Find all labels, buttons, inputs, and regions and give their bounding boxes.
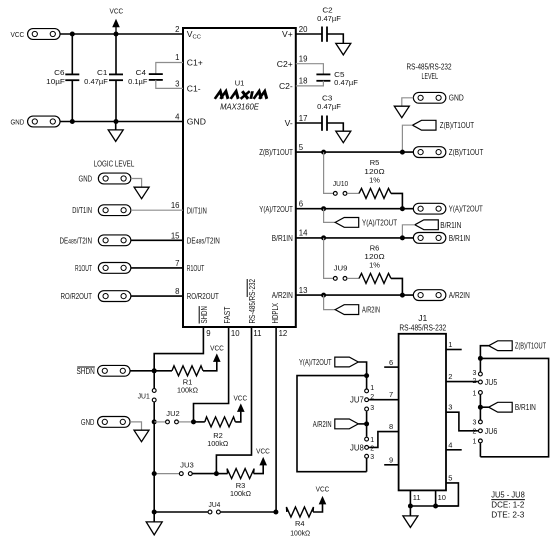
svg-text:Z(B)/T1OUT: Z(B)/T1OUT	[449, 147, 484, 157]
junction dot pin13/R6	[400, 293, 405, 298]
svg-text:6: 6	[299, 200, 303, 209]
wire left rail (JU1 to ground)	[153, 402, 155, 522]
svg-text:9: 9	[206, 329, 210, 338]
svg-text:1: 1	[370, 385, 374, 392]
jumper JU2	[154, 421, 165, 423]
svg-text:Y(A)/T2OUT: Y(A)/T2OUT	[362, 217, 398, 227]
power VCC arrow (R4)	[319, 496, 327, 505]
wire R3 to VCC	[254, 465, 264, 474]
junction dot JU4/pin12	[273, 510, 278, 515]
svg-text:10: 10	[438, 493, 446, 502]
wire big right loop (DCE/DTE)	[480, 358, 548, 456]
resistor R1	[172, 366, 203, 376]
svg-text:8: 8	[175, 287, 179, 296]
junction dot VCC/C1	[114, 32, 119, 37]
wire B/R1IN flag to junction	[480, 406, 488, 408]
svg-text:16: 16	[171, 201, 180, 210]
svg-text:2: 2	[175, 25, 179, 34]
wire JU8-3 down	[366, 458, 368, 471]
svg-text:18: 18	[299, 77, 308, 86]
svg-text:GND: GND	[449, 93, 464, 103]
wire JU4 to pin 12 junction	[221, 511, 276, 513]
wire junction to JU7-1	[366, 376, 368, 389]
wire SHDN row	[130, 370, 172, 372]
junction dot JU3/pin11	[214, 471, 219, 476]
svg-text:VCC: VCC	[11, 30, 25, 39]
flag Y(A)/T2OUT (mid)	[324, 209, 336, 223]
svg-text:1: 1	[472, 390, 476, 397]
wire U1 pin 13 A/R2IN row	[296, 294, 414, 296]
svg-text:100kΩ: 100kΩ	[290, 528, 310, 537]
svg-text:0.1µF: 0.1µF	[128, 77, 148, 86]
svg-text:2: 2	[370, 394, 374, 401]
svg-text:DE485/T2IN: DE485/T2IN	[60, 236, 93, 245]
svg-text:DTE: 2-3: DTE: 2-3	[491, 509, 524, 519]
svg-text:7: 7	[175, 259, 179, 268]
svg-text:RS-485/RS-232: RS-485/RS-232	[407, 62, 452, 72]
flag B/R1IN (bottom)	[489, 402, 513, 412]
J1 pin 6 stub	[384, 366, 398, 368]
wire DE485/T2IN to pin 15	[131, 239, 183, 241]
junction dot pin6/R5	[400, 206, 405, 211]
wire flag hook to pin 5 row	[402, 125, 412, 152]
svg-text:JU9: JU9	[334, 264, 348, 273]
svg-text:100kΩ: 100kΩ	[177, 386, 198, 395]
svg-text:3: 3	[448, 403, 452, 412]
jumper JU6 (3-pin)	[479, 420, 483, 424]
J1 pin 5 wire to bottom	[436, 483, 459, 506]
svg-text:C2-: C2-	[279, 81, 293, 91]
connector A/R2IN	[413, 290, 446, 301]
svg-text:2: 2	[370, 445, 374, 452]
wire A/R2IN flag to junction	[358, 423, 366, 425]
ground symbol (left rail bottom)	[146, 522, 162, 535]
wire R1OUT to pin 7	[131, 267, 183, 269]
svg-text:VCC: VCC	[233, 394, 247, 403]
junction dot J1 pin11	[408, 504, 413, 509]
svg-text:0.47µF: 0.47µF	[317, 102, 341, 111]
junction dot B/R1IN tap	[478, 405, 483, 410]
wire JU3 to R3 junction	[193, 473, 217, 475]
svg-text:C2+: C2+	[277, 59, 293, 69]
svg-text:4: 4	[175, 113, 180, 122]
svg-text:A/R2IN: A/R2IN	[449, 290, 470, 300]
capacitor C6	[71, 34, 73, 74]
wire DI/T1IN to pin 16	[131, 209, 183, 211]
jumper JU4	[154, 511, 208, 513]
svg-text:LOGIC LEVEL: LOGIC LEVEL	[94, 158, 135, 168]
ground symbol (below C1)	[115, 122, 117, 130]
svg-text:2: 2	[472, 428, 476, 435]
svg-text:U1: U1	[235, 78, 245, 87]
svg-text:11: 11	[413, 493, 421, 502]
junction dot GND/C6	[70, 119, 75, 124]
svg-text:R4: R4	[295, 519, 305, 528]
svg-text:DI/T1IN: DI/T1IN	[187, 205, 207, 215]
svg-text:GND: GND	[187, 117, 206, 127]
svg-text:Z(B)/T1OUT: Z(B)/T1OUT	[440, 120, 475, 130]
svg-text:4: 4	[448, 440, 452, 449]
svg-text:100kΩ: 100kΩ	[230, 489, 251, 498]
junction dot JU5 top	[478, 356, 483, 361]
svg-text:10: 10	[231, 329, 240, 338]
wire JU2 to R2 junction	[179, 421, 194, 423]
connector Z(B)/T1OUT	[413, 147, 446, 158]
svg-text:15: 15	[171, 231, 180, 240]
ground symbol (level section)	[394, 106, 409, 118]
svg-text:DCE: 1-2: DCE: 1-2	[491, 500, 524, 510]
svg-text:VCC: VCC	[210, 344, 224, 353]
svg-text:Z(B)/T1OUT: Z(B)/T1OUT	[515, 341, 547, 351]
svg-text:B/R1IN: B/R1IN	[440, 220, 461, 230]
svg-text:A/R2IN: A/R2IN	[313, 419, 332, 429]
svg-text:LEVEL: LEVEL	[422, 71, 439, 81]
svg-text:C1: C1	[97, 68, 107, 77]
svg-text:C1+: C1+	[187, 57, 203, 67]
svg-text:JU4: JU4	[209, 500, 221, 509]
ground symbol (logic level)	[134, 187, 149, 199]
J1 pin 7 wire to JU7	[369, 399, 399, 401]
junction dot pin6 left	[321, 206, 326, 211]
connector J1 body	[399, 334, 446, 491]
resistor R4	[286, 507, 313, 517]
wire JU7-3 to A/R2IN junction	[366, 411, 368, 436]
svg-text:JU5: JU5	[485, 377, 498, 387]
J1 pin 8 wire to JU8	[369, 432, 399, 448]
junction dot GND/C1	[114, 119, 119, 124]
junction dot JU7 top	[364, 373, 369, 378]
svg-text:R1OUT: R1OUT	[75, 263, 92, 273]
junction dot pin14/flag	[400, 235, 405, 240]
wire pin 11 route	[216, 327, 251, 474]
junction dot pin13 left	[321, 293, 326, 298]
svg-text:2: 2	[448, 372, 452, 381]
svg-text:HDPLX: HDPLX	[270, 303, 280, 324]
wire VCC row to U1 pin 2	[60, 33, 183, 35]
svg-text:JU1: JU1	[138, 392, 150, 401]
svg-text:20: 20	[299, 25, 308, 34]
wire U1 pin 14 B/R1IN row	[296, 237, 414, 239]
svg-text:14: 14	[299, 229, 308, 238]
junction dot JU2/pin10	[191, 419, 196, 424]
power VCC arrow (R3)	[259, 457, 267, 466]
jumper JU7 (3-pin)	[365, 389, 369, 393]
svg-text:A/R2IN: A/R2IN	[362, 305, 380, 315]
svg-text:5: 5	[448, 473, 452, 482]
wire R5 to pin 6 row	[391, 193, 402, 208]
power VCC arrow (R2)	[237, 403, 245, 412]
svg-text:Z(B)/T1OUT: Z(B)/T1OUT	[259, 147, 293, 157]
J1 pin 3 wire to JU6	[446, 412, 478, 431]
svg-text:10µF: 10µF	[46, 77, 65, 86]
wire flag to JU7 junction	[358, 362, 366, 376]
wire pin 12 route	[275, 327, 277, 512]
svg-text:RS-485/RS-232: RS-485/RS-232	[247, 279, 257, 324]
wire U1 pin 5 Z(B)/T1OUT row	[296, 151, 414, 153]
svg-text:100kΩ: 100kΩ	[207, 439, 228, 448]
junction dot JU3/rail	[152, 471, 157, 476]
junction dot GND/rail	[152, 419, 157, 424]
svg-text:JU7: JU7	[350, 394, 364, 404]
svg-text:9: 9	[389, 455, 393, 464]
svg-text:11: 11	[253, 329, 261, 338]
J1 pin 9 stub	[384, 464, 398, 466]
junction dot VCC/C6	[70, 32, 75, 37]
svg-text:RS-485/RS-232: RS-485/RS-232	[399, 322, 446, 332]
jumper JU9	[324, 238, 333, 279]
svg-text:3: 3	[472, 370, 476, 377]
svg-text:JU2: JU2	[166, 409, 179, 418]
svg-text:1%: 1%	[369, 175, 380, 184]
svg-text:RO/R2OUT: RO/R2OUT	[61, 291, 93, 301]
svg-text:Y(A)/T2OUT: Y(A)/T2OUT	[299, 357, 332, 367]
svg-text:Y(A)/T2OUT: Y(A)/T2OUT	[449, 204, 484, 214]
wire pin 9 route to left rail	[154, 327, 203, 388]
svg-text:JU3: JU3	[180, 460, 194, 469]
svg-text:1%: 1%	[369, 261, 380, 270]
svg-text:6: 6	[389, 358, 393, 367]
svg-text:JU10: JU10	[333, 179, 348, 188]
wire GND hook to ground (bottom-left)	[130, 422, 141, 430]
svg-text:FAST: FAST	[222, 307, 232, 324]
svg-text:0.47µF: 0.47µF	[84, 77, 108, 86]
svg-text:C1-: C1-	[187, 84, 201, 94]
wire GND hook to ground (logic)	[131, 179, 142, 188]
svg-text:R1OUT: R1OUT	[187, 263, 205, 273]
connector VCC (top-left)	[28, 29, 61, 40]
svg-text:Y(A)/T2OUT: Y(A)/T2OUT	[259, 204, 293, 214]
MAXIM logo	[215, 91, 269, 99]
connector GND (level section)	[413, 92, 446, 103]
wire pin 10 route	[194, 327, 229, 422]
ground symbol (C2)	[336, 43, 351, 55]
svg-text:17: 17	[299, 114, 308, 123]
wire junction to JU5-3	[479, 358, 481, 372]
wire U1 pin 6 Y(A)/T2OUT row	[296, 208, 414, 210]
svg-text:3: 3	[370, 454, 374, 461]
connector B/R1IN	[413, 233, 446, 244]
svg-text:8: 8	[389, 422, 393, 431]
wire B/R1IN flag hook to pin 14 row	[402, 225, 414, 238]
connector Y(A)/T2OUT	[413, 203, 446, 214]
junction dot pin5/JU10	[321, 150, 326, 155]
svg-text:V+: V+	[282, 29, 293, 39]
svg-text:3: 3	[472, 420, 476, 427]
wire big left loop (DCE/DTE)	[297, 376, 367, 472]
capacitor C1	[115, 34, 117, 74]
svg-text:B/R1IN: B/R1IN	[515, 402, 536, 412]
svg-text:C6: C6	[54, 68, 64, 77]
svg-text:DI/T1IN: DI/T1IN	[72, 205, 92, 215]
svg-text:JU5 - JU8: JU5 - JU8	[491, 489, 525, 499]
jumper JU8 (3-pin)	[365, 437, 369, 441]
wire JU5-1 to B/R1IN junction	[479, 395, 481, 420]
junction dot J1 pin10	[433, 504, 438, 509]
capacitor C3 on V- pin 17	[296, 122, 322, 124]
wire R4 to VCC	[313, 504, 322, 513]
capacitor C2 on V+ pin 20	[296, 33, 322, 35]
junction dot SHDN/rail	[152, 368, 157, 373]
svg-text:1: 1	[448, 340, 452, 349]
svg-text:3: 3	[370, 405, 374, 412]
svg-text:GND: GND	[11, 117, 25, 126]
jumper JU1 (vertical)	[152, 389, 156, 393]
capacitor C4 with bracket to pins 1,3	[156, 63, 183, 75]
svg-text:1: 1	[370, 437, 374, 444]
ground symbol (J1)	[409, 506, 411, 516]
resistor R5	[359, 188, 391, 198]
resistor R2	[194, 421, 205, 423]
svg-text:3: 3	[175, 79, 179, 88]
J1 pin 10 stub	[435, 490, 437, 506]
power VCC arrow (top)	[112, 19, 120, 28]
J1 pin 1 stub	[446, 349, 462, 351]
junction dot A/R2IN tap	[364, 421, 369, 426]
junction dot pin14/JU9	[321, 235, 326, 240]
J1 pin 4 stub	[446, 449, 462, 451]
svg-text:1: 1	[175, 53, 179, 62]
wire GND row to U1 pin 4	[60, 121, 183, 123]
svg-text:JU8: JU8	[350, 442, 364, 452]
connector GND (top-left)	[28, 116, 61, 127]
svg-text:MAX3160E: MAX3160E	[220, 102, 259, 112]
svg-text:DE485/T2IN: DE485/T2IN	[187, 236, 220, 245]
svg-text:1: 1	[472, 439, 476, 446]
wire flag hook to JU5	[480, 346, 488, 359]
svg-text:VCC: VCC	[256, 447, 270, 456]
J1 pin 11 stub	[409, 490, 411, 506]
op-amp U1 MAX3160E IC body	[183, 28, 296, 327]
svg-text:5: 5	[299, 143, 304, 152]
svg-text:B/R1IN: B/R1IN	[272, 233, 293, 243]
svg-text:V-: V-	[285, 118, 293, 128]
svg-text:B/R1IN: B/R1IN	[449, 233, 470, 243]
resistor R3	[216, 473, 227, 475]
wire RO/R2OUT to pin 8	[131, 295, 183, 297]
wire R2 to VCC	[235, 412, 241, 422]
flag Z(B)/T1OUT (bottom)	[489, 341, 513, 351]
J1 pin 2 wire to JU5	[446, 381, 478, 383]
wire GND hook to ground	[402, 98, 414, 106]
svg-text:0.47µF: 0.47µF	[317, 14, 341, 23]
svg-text:GND: GND	[81, 417, 95, 427]
flag Z(B)/T1OUT (top)	[413, 120, 437, 130]
svg-text:JU6: JU6	[485, 426, 498, 436]
jumper JU3	[154, 473, 179, 475]
svg-text:A/R2IN: A/R2IN	[272, 290, 293, 300]
flag B/R1IN (mid)	[415, 220, 439, 230]
svg-text:VCC: VCC	[316, 485, 330, 494]
svg-text:VCC: VCC	[110, 7, 124, 16]
svg-text:12: 12	[279, 329, 288, 338]
wire J1 ground bus	[410, 505, 458, 507]
jumper JU10	[324, 152, 333, 193]
svg-text:19: 19	[299, 55, 308, 64]
flag A/R2IN (mid)	[324, 295, 336, 310]
wire R6 to pin 13 row	[391, 278, 402, 295]
svg-text:SHDN: SHDN	[199, 306, 209, 323]
svg-text:RO/R2OUT: RO/R2OUT	[187, 291, 220, 301]
wire JU9 to R6	[347, 277, 359, 279]
svg-text:2: 2	[472, 378, 476, 385]
wire JU6-1 down	[479, 443, 481, 457]
ground symbol (C3)	[336, 131, 351, 143]
resistor R6	[359, 273, 391, 283]
svg-text:0.47µF: 0.47µF	[334, 78, 358, 87]
junction dot JU4/rail	[152, 510, 157, 515]
power VCC arrow (R1)	[213, 353, 221, 362]
ground symbol (bottom-left GND)	[134, 430, 149, 442]
svg-text:C4: C4	[136, 68, 146, 77]
jumper JU5 (3-pin)	[479, 372, 483, 376]
capacitor C5 between C2+/C2-	[296, 64, 324, 75]
wire JU10 to R5	[347, 192, 359, 194]
junction dot pin5/flag	[400, 150, 405, 155]
svg-text:13: 13	[299, 286, 308, 295]
wire R1 to VCC	[203, 361, 217, 371]
svg-text:7: 7	[389, 390, 393, 399]
svg-text:GND: GND	[79, 173, 93, 183]
